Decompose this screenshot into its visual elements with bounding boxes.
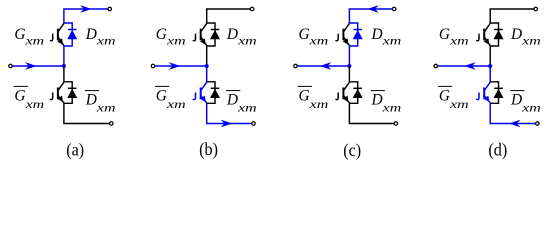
wire: diode branch rectangle [490,23,498,46]
svg-text:(c): (c) [343,140,361,160]
diode triangle [353,89,363,98]
terminal: top right [250,7,254,11]
wire: lower emitter to bottom terminal [349,103,394,124]
svg-text:xm: xm [308,97,328,111]
diode triangle [67,30,77,39]
wire: diode branch rectangle [207,82,215,104]
svg-text:xm: xm [381,33,401,47]
svg-text:xm: xm [381,100,401,114]
IGBT emitter lead [58,37,64,46]
node: midpoint junction [347,64,351,68]
IGBT emitter lead [484,37,490,46]
IGBT emitter arrow [343,96,349,102]
wire: node to lower device collector [63,66,65,82]
label Dbar_xm [371,90,385,92]
svg-text:G: G [439,88,450,105]
wire: diode branch rectangle [64,23,72,46]
arrow: mid wire current [320,63,330,70]
terminal: bottom right [110,122,114,126]
svg-text:xm: xm [96,100,116,114]
diode cathode bar [353,29,362,31]
svg-text:(b): (b) [199,139,218,159]
svg-text:xm: xm [24,33,44,47]
IGBT gate bar [483,88,485,100]
IGBT emitter arrow [200,38,206,44]
terminal: top right [108,7,112,11]
svg-text:G: G [14,26,25,43]
node: midpoint junction [62,64,66,68]
wire: mid terminal to node [155,65,207,67]
diode cathode bar [494,29,503,31]
wire: diode branch rectangle [207,23,215,46]
IGBT emitter lead [484,95,490,103]
arrow: mid wire current [26,63,36,70]
svg-text:G: G [299,26,310,43]
IGBT gate lead curl [193,34,195,41]
IGBT gate bar [483,29,485,41]
IGBT gate lead curl [336,93,338,100]
IGBT emitter arrow [484,96,490,102]
svg-text:D: D [371,26,383,43]
svg-text:D: D [85,92,97,109]
IGBT collector lead [484,23,490,32]
svg-text:xm: xm [237,33,257,47]
label Gbar_xm [298,85,312,87]
wire: diode branch rectangle [490,82,498,104]
IGBT gate bar [200,29,202,41]
diode cathode bar [68,87,77,89]
IGBT emitter lead [201,37,207,46]
wire: node to lower device collector [489,66,491,82]
wire: mid terminal to node [437,65,490,67]
svg-text:xm: xm [521,100,541,114]
arrow: bottom wire current [510,120,520,127]
IGBT gate bar [57,29,59,41]
arrow: mid wire current [465,63,475,70]
svg-text:D: D [510,92,522,109]
wire: diode branch rectangle [64,82,72,104]
terminal: bottom right [252,122,256,126]
svg-text:D: D [226,26,238,43]
svg-text:D: D [371,92,383,109]
IGBT gate lead curl [336,34,338,41]
label Gbar_xm [438,85,452,87]
svg-text:xm: xm [449,97,469,111]
IGBT collector lead [343,82,349,91]
wire: lower emitter to bottom terminal [64,103,110,124]
IGBT emitter arrow [57,38,63,44]
node: midpoint junction [205,64,209,68]
svg-text:xm: xm [521,33,541,47]
wire: mid terminal to node [297,65,349,67]
terminal: bottom right [536,122,540,126]
svg-text:xm: xm [166,33,186,47]
IGBT emitter arrow [200,96,206,102]
IGBT gate bar [57,88,59,100]
wire: top collector to top terminal [349,9,392,24]
svg-text:D: D [510,26,522,43]
IGBT emitter lead [343,95,349,103]
svg-text:xm: xm [449,33,469,47]
diode triangle [353,30,363,39]
IGBT collector lead [484,82,490,91]
diode triangle [494,89,504,98]
wire: upper device emitter to mid node [489,46,491,67]
arrow: mid wire current [169,63,179,70]
IGBT gate lead curl [51,34,53,41]
svg-text:xm: xm [237,100,257,114]
terminal: mid left [151,64,155,68]
terminal: mid left [434,64,438,68]
svg-text:xm: xm [308,33,328,47]
svg-text:xm: xm [96,33,116,47]
svg-text:G: G [156,26,167,43]
diode triangle [210,89,220,98]
svg-text:G: G [14,88,25,105]
wire: lower emitter to bottom terminal [490,103,536,124]
IGBT emitter lead [201,95,207,103]
arrow: top wire current [368,6,378,13]
svg-text:xm: xm [24,97,44,111]
diode cathode bar [353,87,362,89]
wire: top collector to top terminal [490,9,534,24]
IGBT emitter arrow [484,38,490,44]
terminal: mid left [294,64,298,68]
wire: top collector to top terminal [64,9,108,24]
arrow: top wire current [81,6,91,13]
node: midpoint junction [488,64,492,68]
IGBT emitter arrow [343,38,349,44]
diode cathode bar [494,87,503,89]
svg-text:(a): (a) [66,139,84,159]
diode cathode bar [211,87,220,89]
IGBT gate lead curl [477,93,479,100]
terminal: top right [392,7,396,11]
label Gbar_xm [155,85,169,87]
wire: node to lower device collector [206,66,208,82]
diode cathode bar [211,29,220,31]
wire: mid terminal to node [12,65,64,67]
label Dbar_xm [85,90,99,92]
IGBT collector lead [58,23,64,32]
label Dbar_xm [510,90,524,92]
IGBT gate lead curl [51,93,53,100]
terminal: bottom right [394,122,398,126]
IGBT gate lead curl [477,34,479,41]
IGBT emitter lead [58,95,64,103]
arrow: bottom wire current [221,120,231,127]
label Gbar_xm [14,85,28,87]
IGBT collector lead [201,23,207,32]
wire: lower emitter to bottom terminal [207,103,252,124]
IGBT collector lead [343,23,349,32]
wire: upper device emitter to mid node [63,46,65,67]
wire: node to lower device collector [348,66,350,82]
diode cathode bar [68,29,77,31]
terminal: top right [534,7,538,11]
diode triangle [494,30,504,39]
wire: top collector to top terminal [207,9,251,24]
IGBT gate bar [342,88,344,100]
IGBT collector lead [58,82,64,91]
svg-text:G: G [439,26,450,43]
diode triangle [210,30,220,39]
wire: diode branch rectangle [349,23,357,46]
svg-text:G: G [156,88,167,105]
wire: upper device emitter to mid node [348,46,350,67]
IGBT emitter lead [343,37,349,46]
svg-text:xm: xm [166,97,186,111]
label Dbar_xm [226,90,240,92]
svg-text:D: D [85,26,97,43]
svg-text:G: G [299,88,310,105]
IGBT gate bar [200,88,202,100]
IGBT gate lead curl [193,93,195,100]
svg-text:D: D [226,92,238,109]
diode triangle [67,89,77,98]
wire: diode branch rectangle [349,82,357,104]
wire: upper device emitter to mid node [206,46,208,67]
IGBT gate bar [342,29,344,41]
IGBT emitter arrow [57,96,63,102]
IGBT collector lead [201,82,207,91]
terminal: mid left [9,64,13,68]
svg-text:(d): (d) [488,139,507,159]
